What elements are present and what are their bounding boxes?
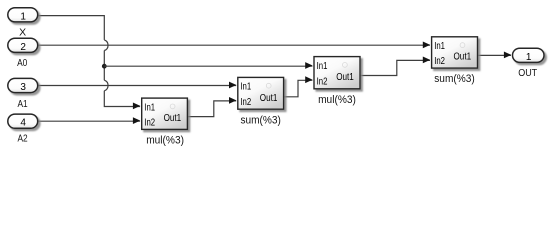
junction node: X branch [102,64,107,69]
wire: sum1 Out1 to mul2 In2 (elbow) [284,80,313,97]
input port 2 [8,38,38,53]
arrowhead into mul2 In1 [305,62,312,69]
wire hop: X trunk over A0 wire [104,40,108,51]
svg-text:OUT: OUT [518,67,537,79]
svg-text:Out1: Out1 [164,113,182,124]
svg-text:sum(%3): sum(%3) [434,73,475,85]
svg-text:In2: In2 [317,77,328,88]
svg-text:A2: A2 [18,133,28,145]
block mul1 [142,98,188,129]
svg-text:In1: In1 [434,41,445,52]
wire hop: X trunk over A1 wire [104,80,108,91]
svg-text:Out1: Out1 [454,52,472,63]
wire A2: port4 to mul1 In2 [37,120,140,122]
svg-text:In1: In1 [240,82,251,93]
arrowhead into mul1 In1 [133,103,140,110]
arrowhead into output port [504,52,511,59]
input port 4 [8,114,38,129]
wire A0: port2 to sum2 In1 [37,44,430,46]
svg-text:2: 2 [20,42,26,53]
wire X: port1 to mul1 In1, vertical trunk at x=104.3 [37,16,140,107]
svg-text:A0: A0 [17,57,27,69]
input port 1 [8,8,38,23]
wire: mul1 Out1 to sum1 In2 (elbow) [187,101,236,117]
wire: X branch to mul2 In1 [104,65,312,67]
input port 3 [8,78,38,93]
wire A1: port3 to sum1 In1 [37,85,236,87]
arrowhead into mul1 In2 [133,117,140,124]
svg-text:In1: In1 [317,61,328,72]
svg-text:X: X [19,27,26,39]
svg-text:sum(%3): sum(%3) [240,114,281,126]
svg-text:Out1: Out1 [336,72,354,83]
arrowhead into sum2 In1 [423,42,430,49]
svg-text:In2: In2 [144,118,155,129]
arrowhead into mul2 In2 [305,76,312,83]
svg-text:4: 4 [20,118,26,129]
block sum1 [238,77,284,109]
svg-text:In1: In1 [144,102,155,113]
svg-text:mul(%3): mul(%3) [318,94,356,106]
output port 1 [513,48,545,63]
svg-text:mul(%3): mul(%3) [146,135,184,147]
wire: sum2 Out1 to output port [478,54,512,56]
svg-text:In2: In2 [434,56,445,67]
svg-text:3: 3 [20,82,26,93]
arrowhead into sum1 In2 [229,97,236,104]
svg-text:A1: A1 [18,98,28,110]
svg-text:1: 1 [20,11,26,22]
arrowhead into sum1 In1 [229,82,236,89]
block sum2 [432,37,478,68]
block mul2 [314,57,360,89]
svg-text:In2: In2 [240,97,251,108]
wire: mul2 Out1 to sum2 In2 (elbow) [360,60,430,75]
svg-text:1: 1 [526,52,532,63]
arrowhead into sum2 In2 [423,57,430,64]
svg-text:Out1: Out1 [260,93,278,104]
